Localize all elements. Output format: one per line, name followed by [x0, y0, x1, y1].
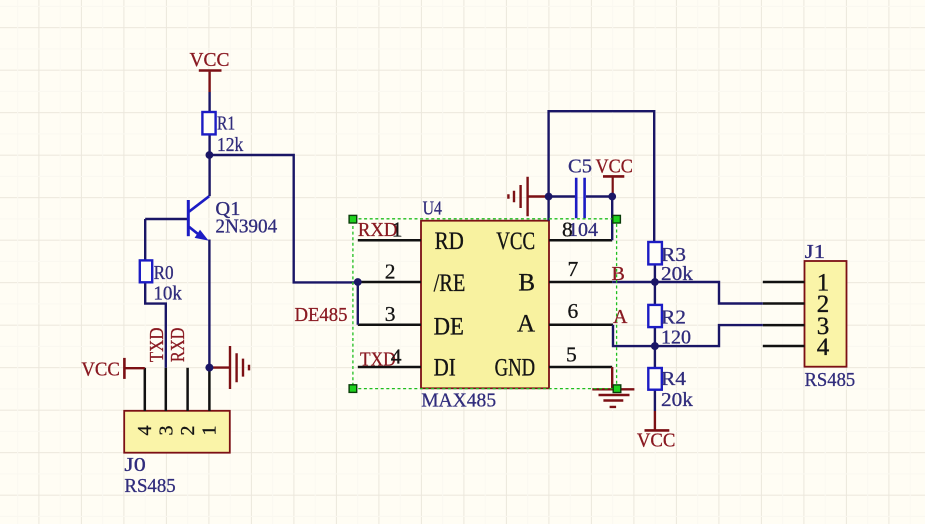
svg-text:C5: C5: [568, 156, 592, 178]
svg-text:4: 4: [817, 334, 830, 361]
svg-text:J0: J0: [124, 454, 145, 476]
svg-text:RXD: RXD: [167, 328, 189, 363]
svg-text:A: A: [613, 306, 628, 328]
svg-text:DE: DE: [434, 313, 464, 340]
svg-text:8: 8: [562, 217, 573, 241]
svg-text:B: B: [518, 270, 535, 297]
svg-text:R0: R0: [154, 262, 174, 284]
svg-text:20k: 20k: [661, 389, 693, 411]
svg-text:A: A: [517, 311, 535, 338]
svg-text:/RE: /RE: [434, 270, 466, 297]
svg-text:5: 5: [566, 343, 577, 367]
svg-text:6: 6: [568, 299, 579, 323]
svg-text:4: 4: [391, 344, 402, 368]
svg-text:R4: R4: [661, 368, 686, 390]
svg-text:VCC: VCC: [596, 156, 633, 178]
svg-text:GND: GND: [495, 355, 536, 382]
svg-text:2N3904: 2N3904: [215, 215, 277, 237]
svg-text:B: B: [612, 263, 625, 285]
svg-text:120: 120: [661, 326, 691, 348]
svg-text:VCC: VCC: [190, 49, 230, 71]
svg-text:DI: DI: [434, 355, 456, 382]
svg-text:VCC: VCC: [637, 430, 676, 452]
svg-text:2: 2: [177, 426, 199, 436]
svg-text:DE485: DE485: [295, 304, 348, 326]
svg-text:4: 4: [134, 426, 156, 436]
svg-text:7: 7: [568, 257, 579, 281]
svg-text:MAX485: MAX485: [421, 390, 496, 412]
svg-text:RS485: RS485: [805, 369, 856, 391]
svg-text:2: 2: [385, 259, 396, 283]
svg-text:U4: U4: [423, 197, 442, 219]
svg-text:RD: RD: [435, 228, 464, 255]
svg-text:RS485: RS485: [124, 475, 175, 497]
svg-text:10k: 10k: [153, 282, 181, 304]
svg-text:VCC: VCC: [496, 228, 535, 255]
svg-text:R1: R1: [217, 113, 235, 135]
svg-text:3: 3: [156, 426, 178, 436]
svg-text:1: 1: [392, 217, 403, 241]
svg-text:J1: J1: [805, 241, 826, 263]
svg-text:VCC: VCC: [81, 358, 120, 380]
svg-text:12k: 12k: [217, 134, 243, 156]
svg-text:1: 1: [198, 426, 220, 436]
svg-text:20k: 20k: [661, 263, 693, 285]
svg-text:TXD: TXD: [146, 328, 168, 363]
svg-text:R2: R2: [661, 306, 686, 328]
svg-text:3: 3: [385, 302, 396, 326]
